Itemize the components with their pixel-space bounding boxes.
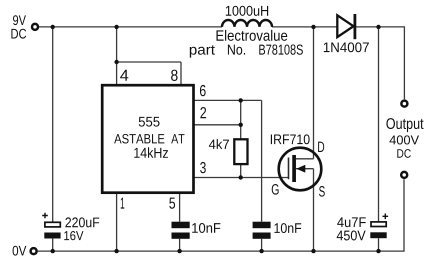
pin 2 label [200,107,206,118]
terminal 0V input [31,248,37,254]
pin 8 label [171,70,178,81]
pin 6 label [200,85,206,96]
label 0V [13,246,27,256]
inductor L1 1000uH coil [222,20,272,27]
capacitor C3 10nF bottom plate [253,233,271,239]
wire 4u7F branch upper [378,27,380,222]
junction 0V rail / 10nF C3 [259,249,263,253]
capacitor C1 220uF top plate (hollow) [45,222,60,227]
junction pin 2 line / resistor node [239,123,243,127]
transistor Q1 IRF710 body circle [279,148,322,191]
label AT [171,134,184,143]
capacitor C2 10nF top plate [172,222,190,229]
wire 220uF branch lower [52,239,54,252]
junction top rail / MOSFET drain [311,25,315,29]
pin 4 label [120,70,128,81]
junction top rail / 220uF branch [51,25,55,29]
wire top rail right (inductor to corner, down to output+) [272,27,404,99]
junction top rail / 4u7F branch [376,25,380,29]
IC U1 555 timer box [102,85,193,193]
label DC (output) [397,149,410,158]
capacitor C2 10nF bottom plate [172,233,190,239]
wire MOSFET drain to top rail [296,27,314,159]
transistor Q1 channel bar [292,155,296,182]
junction 0V rail / 220uF branch [51,249,55,253]
label No. (inductor note) [228,45,245,55]
transistor Q1 source arrowhead [296,165,305,173]
wire bottom 0V rail [38,179,405,251]
label 10nF (C3) [274,223,301,233]
label S (source) [319,186,325,197]
capacitor C1 220uF bottom plate (solid) [44,233,60,239]
wire resistor bottom to pin 3 line [240,164,242,177]
wire pin 5 to 10nF C2 [179,193,181,222]
resistor R1 4k7 body [234,139,247,164]
label part (inductor note) [190,45,215,57]
label 16V [64,231,83,240]
wire top rail left (9V terminal to inductor) [39,26,222,28]
diode D1 1N4007 triangle [337,15,353,37]
wire 10nF C3 to 0V rail [261,239,263,251]
label 450V [337,231,366,241]
wire pin 3 to MOSFET gate [194,177,289,179]
wire 4u7F branch lower [378,238,380,251]
junction 0V rail / pin 1 [114,249,118,253]
diode D1 cathode bar [353,14,356,39]
label 1000uH [226,6,268,16]
label DC (input) [11,29,26,39]
wire 220uF branch upper [52,27,54,222]
pin 3 label [200,162,206,173]
wire pin 2 to resistor node [194,124,241,126]
label 10nF (C2) [192,223,220,233]
label D (drain) [318,142,324,152]
junction 0V rail / MOSFET source [311,249,315,253]
wire 10nF C2 to 0V rail [179,239,181,251]
label 14kHz [134,147,168,158]
label 220uF [65,217,99,227]
junction pin 6 line / resistor node [239,98,243,102]
junction pin4 / pin8 link [114,60,118,64]
terminal output positive [401,101,407,107]
pin 5 label [169,198,175,209]
capacitor C4 4u7F top plate (hollow) [371,222,386,227]
wire node to resistor top [240,100,242,139]
label ASTABLE [114,134,164,144]
wire 555 supply pins 4 and 8 to top rail [117,27,181,85]
plus sign of C4 [383,214,389,220]
junction 0V rail / 10nF C2 [177,249,181,253]
transistor Q1 gate bar [288,158,290,180]
junction 0V rail / 4u7F branch [376,249,380,253]
capacitor C4 4u7F bottom plate (solid) [370,232,386,238]
wire pin 6 across and down to 10nF C3 [194,100,262,221]
label 9V [13,15,26,25]
capacitor C3 10nF top plate [253,222,271,229]
terminal output negative [401,172,407,178]
label IRF710 [271,134,310,144]
label B78108S (inductor note) [259,44,303,54]
label 1N4007 [324,42,369,52]
label 4k7 [209,139,229,149]
wire MOSFET source to 0V rail [296,169,314,251]
plus sign of C1 [42,213,48,219]
label Output [386,118,423,132]
label G (gate) [272,184,279,195]
terminal 9V input [32,24,38,30]
junction top rail / 555 supply [114,25,118,29]
pin 1 label [121,198,125,209]
label 555 [139,117,160,127]
label Electrovalue [216,30,287,41]
wire pin 1 to 0V rail [116,193,118,251]
label 400V [389,135,419,144]
label 4u7F [337,217,366,227]
junction pin 3 line / resistor bottom [239,175,243,179]
